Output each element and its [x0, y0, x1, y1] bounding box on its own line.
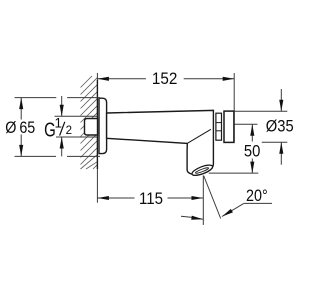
dim 50 bottom arrow — [250, 162, 254, 174]
dim G1/2 bottom reference line — [56, 136, 97, 138]
dim G1/2 top arrow — [60, 105, 64, 117]
valve body with spout — [107, 110, 214, 175]
dim 152 right arrow — [223, 77, 235, 81]
dim 152 right extension line (at push cap face) — [233, 73, 235, 142]
spout-body junction line — [188, 129, 211, 143]
svg-text:1: 1 — [55, 115, 63, 130]
dim 115 right arrow — [192, 196, 204, 200]
20 deg leader underline — [244, 202, 272, 204]
20 deg arc arrow — [191, 216, 203, 222]
outlet vertical extension line — [202, 176, 204, 225]
20 deg leader slant — [222, 203, 244, 216]
dim 152 left extension line (above wall) — [96, 73, 98, 80]
svg-text:2: 2 — [66, 125, 72, 137]
push cap (Ø35 button) — [224, 111, 234, 142]
svg-text:50: 50 — [244, 142, 261, 161]
dim Ø65 dimension line — [20, 98, 22, 120]
dim G1/2 fraction slash — [60, 122, 65, 136]
ring division upper — [216, 122, 222, 124]
svg-text:Ø35: Ø35 — [266, 117, 294, 136]
dim 152 left arrow — [97, 77, 109, 81]
dim Ø35 bottom arrow stem — [280, 142, 282, 164]
dim 115 left arrow — [97, 196, 109, 200]
dim Ø35 bottom arrow — [279, 142, 283, 154]
dim 152 dimension line — [97, 78, 145, 80]
flange (escutcheon, Ø65) — [99, 98, 107, 153]
G1/2 fitting (threaded inlet behind wall) — [85, 119, 98, 136]
outlet outer ellipse — [191, 163, 214, 177]
dim G1/2 bottom arrow stem — [61, 137, 63, 156]
dim Ø35 top arrow stem — [280, 89, 282, 111]
svg-text:115: 115 — [139, 189, 163, 208]
wall hatching — [81, 76, 98, 169]
dim Ø35 top extension line — [234, 110, 287, 112]
dim Ø35 top arrow — [279, 100, 283, 112]
dim 50 top arrow stem — [251, 124, 253, 141]
dim G1/2 bottom arrow — [60, 137, 64, 149]
outlet inner ellipse (aerator) — [195, 167, 209, 174]
svg-text:152: 152 — [152, 69, 178, 88]
dim G1/2 top reference line — [55, 115, 98, 117]
20 deg arc tail — [181, 216, 203, 219]
dim 115 wall extension line (below wall) — [96, 169, 98, 203]
dim Ø65 top arrow — [19, 98, 23, 110]
dim 50 bottom arrow stem — [251, 159, 253, 174]
dim G1/2 top arrow stem — [61, 96, 63, 116]
dim Ø65 top reference line — [15, 97, 101, 99]
dim 50 top reference line (tap axis) — [234, 123, 257, 125]
dim 50 bottom reference line (outlet level) — [209, 172, 259, 174]
svg-text:Ø 65: Ø 65 — [5, 118, 35, 137]
20 deg outlet direction line — [204, 176, 221, 219]
20 deg leader arrow — [221, 209, 233, 218]
svg-text:20°: 20° — [246, 186, 268, 205]
dim Ø35 bottom extension line — [262, 141, 288, 143]
dim 115 dimension line — [97, 197, 134, 199]
wall surface line — [96, 80, 98, 169]
ring division lower — [216, 130, 222, 132]
dim 50 top arrow — [250, 124, 254, 136]
dim Ø65 bottom reference line — [15, 155, 101, 157]
dim Ø65 bottom arrow — [19, 145, 23, 157]
cartridge ring band — [216, 113, 222, 140]
